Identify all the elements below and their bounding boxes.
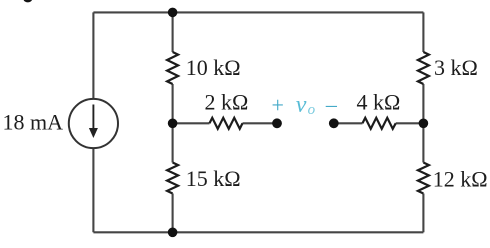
caption glyph fragment (cut-off letter at top-left) — [23, 0, 32, 2]
svg-text:4 kΩ: 4 kΩ — [357, 89, 401, 114]
svg-text:–: – — [325, 91, 338, 116]
svg-text:3 kΩ: 3 kΩ — [434, 55, 478, 80]
node bottom — [168, 228, 178, 238]
svg-text:12 kΩ: 12 kΩ — [433, 166, 488, 191]
wire middle vertical mid (10k to 15k) — [172, 84, 174, 163]
svg-text:10 kΩ: 10 kΩ — [186, 55, 241, 80]
wire top (node A top rail) — [93, 11, 423, 13]
wire right lower (12k to bottom) — [422, 194, 424, 233]
resistor 12k zigzag — [418, 163, 429, 194]
node top — [168, 8, 178, 18]
wire right middle (3k to 12k) — [422, 84, 424, 163]
svg-text:15 kΩ: 15 kΩ — [186, 166, 241, 191]
current source arrow (downward) — [89, 105, 98, 139]
wire middle vertical upper (top node to 10k) — [172, 12, 174, 52]
resistor 2k zigzag — [210, 118, 243, 129]
svg-text:2 kΩ: 2 kΩ — [205, 89, 249, 114]
node middle-right — [419, 119, 429, 129]
resistor 4k zigzag — [363, 118, 396, 129]
wire left upper — [92, 12, 94, 99]
svg-text:v: v — [296, 92, 307, 118]
resistor 10k zigzag — [167, 52, 178, 84]
svg-text:18 mA: 18 mA — [3, 110, 64, 135]
wire 2k to plus terminal — [243, 122, 278, 124]
wire left lower — [92, 148, 94, 232]
node middle-left — [168, 119, 178, 129]
resistor 15k zigzag — [167, 163, 178, 194]
svg-text:+: + — [272, 92, 284, 117]
wire middle vertical lower (15k to bottom node) — [172, 194, 174, 233]
wire bottom rail — [93, 231, 423, 233]
node vo plus terminal — [272, 118, 282, 128]
wire 4k to right node — [396, 122, 424, 124]
svg-text:o: o — [308, 102, 316, 118]
node vo minus terminal — [329, 118, 339, 128]
wire right upper (to 3k) — [422, 12, 424, 52]
resistor 3k zigzag — [418, 52, 429, 84]
wire middle branch left (node to 2k) — [173, 122, 210, 124]
wire minus terminal to 4k — [334, 122, 363, 124]
current source I1 circle — [69, 99, 118, 148]
